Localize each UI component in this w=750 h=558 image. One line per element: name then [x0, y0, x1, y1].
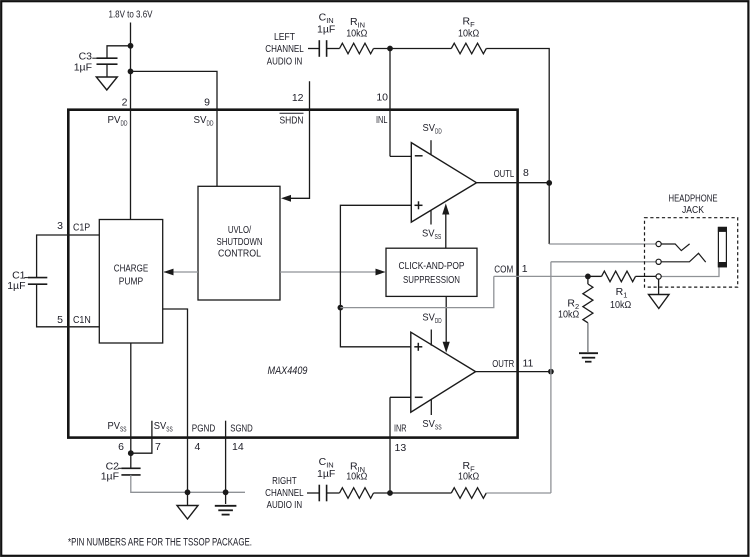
wire to C2 [130, 453, 132, 468]
svg-text:11: 11 [523, 357, 534, 369]
click-and-pop suppression block [386, 248, 477, 296]
svg-text:C1N: C1N [73, 314, 91, 326]
node supply junction lower [128, 69, 134, 75]
node supply junction upper [128, 43, 134, 49]
svg-text:10kΩ: 10kΩ [558, 308, 579, 320]
svg-text:10kΩ: 10kΩ [610, 299, 631, 311]
wire C3 branch [107, 46, 131, 58]
svg-text:SGND: SGND [230, 422, 253, 434]
svg-text:13: 13 [395, 442, 407, 454]
svg-text:1.8V to 3.6V: 1.8V to 3.6V [109, 9, 153, 21]
svg-text:7: 7 [155, 441, 161, 453]
jack plug symbol [718, 227, 727, 267]
resistor RIN (right) [340, 461, 374, 499]
svg-text:10kΩ: 10kΩ [346, 28, 367, 40]
left channel audio in label [265, 31, 304, 67]
arrowhead into UVLO [281, 195, 291, 202]
svg-text:CONTROL: CONTROL [218, 248, 261, 260]
wire RIN to RF node [374, 48, 452, 50]
svg-text:6: 6 [118, 441, 124, 453]
wire supply to SVDD pin 9 [131, 71, 218, 186]
svg-text:10: 10 [376, 92, 388, 104]
node PVSS/C2 junction [128, 450, 134, 456]
svg-text:UVLO/: UVLO/ [228, 224, 251, 236]
arrow click-and-pop to op-amp R [445, 296, 447, 342]
jack terminal tip [656, 241, 661, 246]
svg-text:MAX4409: MAX4409 [268, 365, 308, 377]
jack sleeve wire (gray) [661, 267, 719, 277]
wire OUTR to jack ring (gray) [551, 261, 656, 263]
svg-text:2: 2 [122, 97, 128, 109]
svg-text:8: 8 [523, 167, 529, 179]
svg-text:1µF: 1µF [317, 468, 335, 480]
svg-text:PUMP: PUMP [119, 276, 143, 288]
jack tip contact [661, 244, 689, 251]
capacitor CIN (right) [317, 456, 335, 501]
wire plus-input bus [340, 205, 411, 346]
svg-text:SHUTDOWN: SHUTDOWN [217, 236, 263, 248]
wire charge pump to PGND pin 4 [163, 309, 188, 506]
resistor RIN (left) [340, 16, 374, 54]
wire C2 to ground bus (gray) [131, 475, 245, 492]
svg-text:INR: INR [394, 423, 407, 435]
svg-text:C1P: C1P [73, 221, 90, 233]
svg-text:3: 3 [57, 220, 63, 232]
svg-text:1: 1 [522, 263, 528, 275]
arrowhead into click-and-pop [376, 269, 386, 276]
wire pin 13 INR [389, 397, 391, 493]
arrow click-and-pop to op-amp L [445, 214, 447, 249]
svg-text:CHARGE: CHARGE [114, 263, 148, 275]
charge pump block [99, 220, 162, 344]
wire pin 10 INL [389, 49, 391, 157]
svg-text:12: 12 [292, 92, 304, 104]
svg-text:4: 4 [195, 441, 201, 453]
wire sleeve to chassis ground [658, 279, 660, 294]
node OUTL junction [546, 180, 552, 186]
wire RF to OUTR feedback (gray) [486, 492, 551, 494]
node SGND junction [223, 489, 229, 495]
wire CIN to RIN (right) [327, 492, 340, 494]
svg-text:CLICK-AND-POP: CLICK-AND-POP [399, 260, 465, 272]
wire supply vertical into pin 2 [130, 23, 132, 220]
svg-text:HEADPHONE: HEADPHONE [669, 193, 718, 205]
UVLO shutdown control block [198, 186, 280, 300]
wire OUTL from op-amp [477, 182, 550, 184]
wire COM to R1/R2 node (gray) [494, 275, 602, 277]
svg-text:AUDIO IN: AUDIO IN [267, 499, 303, 511]
node OUTR junction [548, 369, 554, 375]
ground (power) below PGND [177, 506, 198, 520]
svg-text:9: 9 [204, 97, 210, 109]
wire right input to CIN [307, 492, 319, 494]
svg-text:INL: INL [376, 114, 388, 126]
wire COM branch (gray) [340, 276, 493, 307]
ground (chassis) below jack [649, 295, 670, 309]
wire RIN to RF node (right) [374, 492, 452, 494]
svg-text:SUPPRESSION: SUPPRESSION [403, 274, 460, 286]
node plus bus junction [338, 305, 344, 311]
svg-text:OUTR: OUTR [492, 358, 514, 370]
jack ring contact [661, 253, 706, 262]
svg-text:14: 14 [232, 441, 244, 453]
svg-text:JACK: JACK [682, 204, 704, 216]
wire SHDN pin 12 [284, 81, 310, 198]
ground (earth) below R2 [579, 353, 598, 362]
IC body MAX4409 [68, 110, 517, 438]
svg-text:PGND: PGND [192, 422, 216, 434]
capacitor CIN (left) [317, 12, 335, 57]
capacitor C1 [7, 269, 47, 292]
ground (earth) below SGND [215, 506, 237, 515]
svg-text:SHDN: SHDN [280, 114, 304, 126]
wire PVSS pin 6 [130, 343, 132, 453]
wire OUTL to jack tip (gray) [549, 243, 656, 245]
svg-text:AUDIO IN: AUDIO IN [267, 55, 303, 67]
wire CIN to RIN [327, 48, 340, 50]
wire RF to OUTL feedback [486, 49, 549, 245]
wire R2 to ground (gray) [587, 323, 589, 352]
wire SGND pin 14 [225, 421, 227, 504]
svg-text:LEFT: LEFT [274, 31, 295, 43]
svg-text:10kΩ: 10kΩ [346, 470, 367, 482]
svg-text:OUTL: OUTL [494, 168, 515, 180]
resistor R2 [558, 276, 593, 322]
svg-text:1µF: 1µF [317, 23, 335, 35]
svg-text:1µF: 1µF [101, 471, 119, 483]
capacitor C2 [101, 460, 141, 482]
svg-text:*PIN NUMBERS ARE FOR THE TSSOP: *PIN NUMBERS ARE FOR THE TSSOP PACKAGE. [68, 536, 252, 548]
svg-text:CHANNEL: CHANNEL [265, 487, 304, 499]
svg-text:1µF: 1µF [7, 280, 25, 292]
jack terminal sleeve [656, 274, 661, 279]
jack terminal ring [656, 259, 661, 264]
svg-text:COM: COM [494, 263, 513, 275]
wire INL to op-amp minus [390, 155, 411, 157]
op-amp U2 right [411, 312, 476, 432]
wire left input to CIN [308, 48, 319, 50]
ground (power) below C3 [96, 77, 117, 90]
resistor RF (top) [451, 15, 486, 54]
op-amp U1 left [411, 122, 476, 241]
wire INR to op-amp minus [390, 396, 411, 398]
capacitor C3 [74, 51, 118, 74]
wire OUTR riser (gray) [550, 262, 552, 493]
node COM/R1/R2 junction [585, 274, 591, 280]
svg-text:CHANNEL: CHANNEL [265, 43, 304, 55]
svg-text:10kΩ: 10kΩ [458, 470, 479, 482]
node INR junction [387, 490, 393, 496]
wire UVLO to click-and-pop [280, 271, 385, 273]
svg-text:1µF: 1µF [74, 61, 92, 73]
wire UVLO to charge pump [164, 271, 198, 273]
wire C3 to ground [106, 64, 108, 77]
headphone jack dashed box [645, 218, 738, 287]
arrowhead into charge pump [164, 269, 174, 276]
wire SVSS pin 7 [131, 421, 152, 454]
node PGND junction [185, 489, 191, 495]
svg-text:10kΩ: 10kΩ [458, 28, 479, 40]
wire OUTR from op-amp [476, 371, 551, 373]
right channel audio in label [265, 475, 304, 511]
node INL junction [387, 46, 393, 52]
resistor R1 [588, 271, 656, 311]
svg-text:RIGHT: RIGHT [272, 475, 297, 487]
wire C1N [37, 284, 100, 327]
resistor RF (bottom) [451, 460, 486, 499]
svg-text:5: 5 [57, 314, 63, 326]
wire C1P [37, 235, 100, 278]
